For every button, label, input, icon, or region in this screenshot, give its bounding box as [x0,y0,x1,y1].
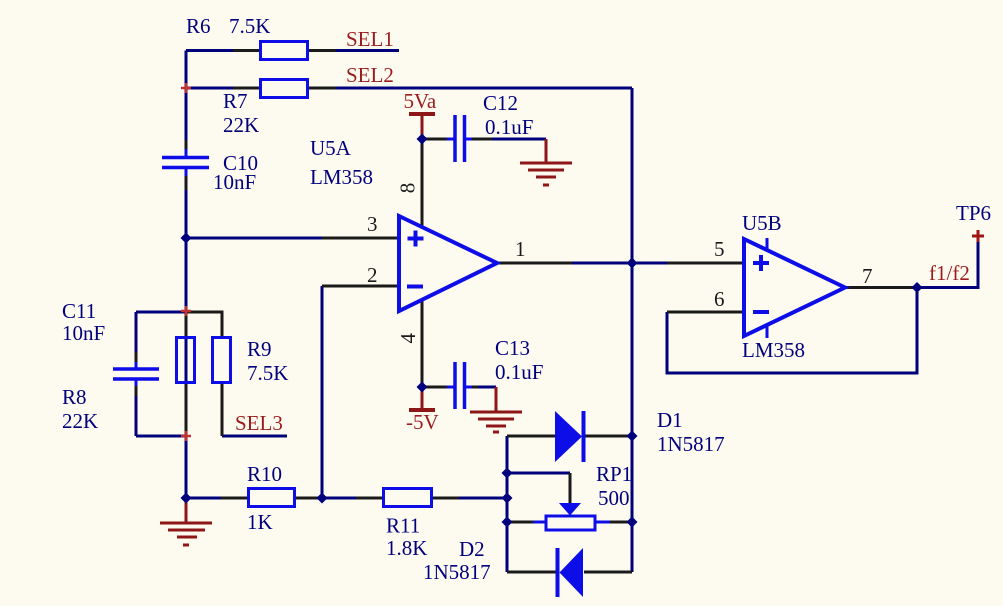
svg-text:3: 3 [367,212,378,236]
svg-text:R10: R10 [247,462,282,486]
svg-text:SEL1: SEL1 [346,27,394,51]
svg-text:TP6: TP6 [956,201,991,225]
svg-text:C11: C11 [62,299,96,323]
svg-text:6: 6 [714,287,725,311]
svg-text:C13: C13 [495,336,530,360]
svg-text:SEL3: SEL3 [235,411,283,435]
svg-text:4: 4 [396,333,420,344]
svg-text:R8: R8 [62,385,87,409]
svg-text:5: 5 [714,237,725,261]
svg-text:R7: R7 [223,89,248,113]
svg-text:U5B: U5B [742,211,782,235]
svg-text:R6: R6 [186,14,211,38]
svg-text:1K: 1K [247,510,273,534]
svg-text:7.5K: 7.5K [247,361,288,385]
svg-text:7.5K: 7.5K [229,14,270,38]
svg-text:LM358: LM358 [310,165,373,189]
svg-text:2: 2 [367,263,378,287]
svg-text:R9: R9 [247,337,272,361]
svg-text:U5A: U5A [310,136,352,160]
svg-text:1N5817: 1N5817 [423,560,491,584]
svg-text:D1: D1 [657,408,683,432]
svg-text:0.1uF: 0.1uF [495,360,543,384]
svg-text:500: 500 [598,486,630,510]
svg-text:RP1: RP1 [596,462,632,486]
svg-text:10nF: 10nF [213,170,256,194]
svg-text:LM358: LM358 [742,338,805,362]
svg-text:0.1uF: 0.1uF [485,115,533,139]
svg-text:f1/f2: f1/f2 [929,261,970,285]
svg-text:7: 7 [862,264,873,288]
svg-text:SEL2: SEL2 [346,63,394,87]
svg-text:8: 8 [396,183,420,194]
svg-text:1: 1 [515,237,526,261]
svg-text:5Va: 5Va [404,89,437,113]
svg-text:22K: 22K [223,113,259,137]
svg-text:R11: R11 [386,514,420,538]
svg-text:-5V: -5V [406,410,439,434]
svg-text:22K: 22K [62,409,98,433]
svg-text:10nF: 10nF [62,321,105,345]
svg-text:D2: D2 [459,537,485,561]
svg-text:1.8K: 1.8K [386,536,427,560]
svg-text:1N5817: 1N5817 [657,432,725,456]
svg-text:C12: C12 [483,91,518,115]
